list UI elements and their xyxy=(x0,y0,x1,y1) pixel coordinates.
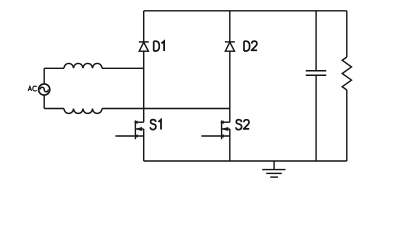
wire AC source top vertical xyxy=(43,68,45,84)
wire AC bottom lead xyxy=(44,108,64,110)
wire L1 to node A xyxy=(102,67,144,69)
wire L2 to node B (D2/S2 branch) xyxy=(102,108,230,110)
wire AC source bottom vertical xyxy=(43,95,45,108)
wire AC top lead + node A junction xyxy=(44,67,64,69)
ground xyxy=(262,161,285,177)
inductor L2 (bottom, humps down) xyxy=(64,109,102,114)
wire D2 anode down through node B to S2 drain xyxy=(229,51,231,122)
label D1 xyxy=(154,41,164,51)
label D2 xyxy=(244,41,257,51)
transistor S2 (MOSFET) xyxy=(201,120,229,161)
wire top rail xyxy=(144,10,347,12)
wire capacitor branch bottom xyxy=(315,75,317,161)
wire load branch bottom xyxy=(346,90,348,161)
AC source V1 xyxy=(39,84,50,95)
wire load branch top xyxy=(346,11,348,57)
wire bottom rail xyxy=(144,160,347,162)
wire D2 branch vertical (top rail to D2 cathode) xyxy=(229,11,231,42)
transistor S1 (MOSFET) xyxy=(115,120,143,161)
label S1 xyxy=(150,120,161,130)
capacitor C1 xyxy=(306,71,326,75)
label S2 xyxy=(236,120,249,130)
wire D1 branch vertical (top rail to D1 cathode) xyxy=(143,11,145,42)
diode D1 xyxy=(139,42,149,51)
wire D1 anode down through node A to S1 drain xyxy=(143,51,145,122)
label AC xyxy=(28,86,37,91)
diode D2 xyxy=(225,42,235,51)
inductor L1 (top, humps up) xyxy=(64,63,102,68)
wire capacitor branch top xyxy=(315,11,317,71)
resistor R1 (load) xyxy=(342,57,351,90)
